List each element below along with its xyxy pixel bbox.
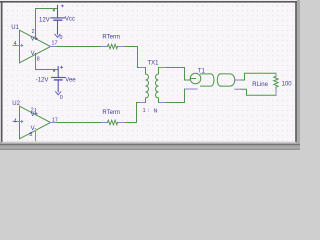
svg-text:RTerm: RTerm [102,35,120,41]
svg-text:Vee: Vee [65,77,76,83]
svg-text:-12V: -12V [36,78,49,84]
svg-text:17: 17 [52,41,58,47]
svg-text:RLine: RLine [252,82,268,88]
svg-text:RTerm: RTerm [102,110,120,116]
svg-text:U2: U2 [12,101,20,107]
svg-text:V+: V+ [31,36,39,42]
svg-text:V-: V- [31,51,37,57]
svg-text:4: 4 [14,118,17,124]
svg-text:U1: U1 [11,25,19,31]
svg-text:2: 2 [32,29,35,35]
svg-text:17: 17 [52,118,58,124]
svg-text:T1: T1 [198,69,206,75]
svg-text:8: 8 [29,132,32,138]
svg-text:N: N [154,108,158,114]
svg-text:0: 0 [60,35,63,41]
svg-text:100: 100 [282,82,293,88]
svg-text:0: 0 [60,95,63,101]
svg-text:TX1: TX1 [148,60,160,66]
svg-text:Vcc: Vcc [65,17,75,23]
svg-text:4: 4 [14,41,17,47]
svg-text:8: 8 [37,56,40,62]
svg-text:V+: V+ [31,112,39,118]
svg-text:12V: 12V [39,18,50,24]
svg-text::: : [148,108,149,114]
svg-text:1: 1 [143,108,146,114]
